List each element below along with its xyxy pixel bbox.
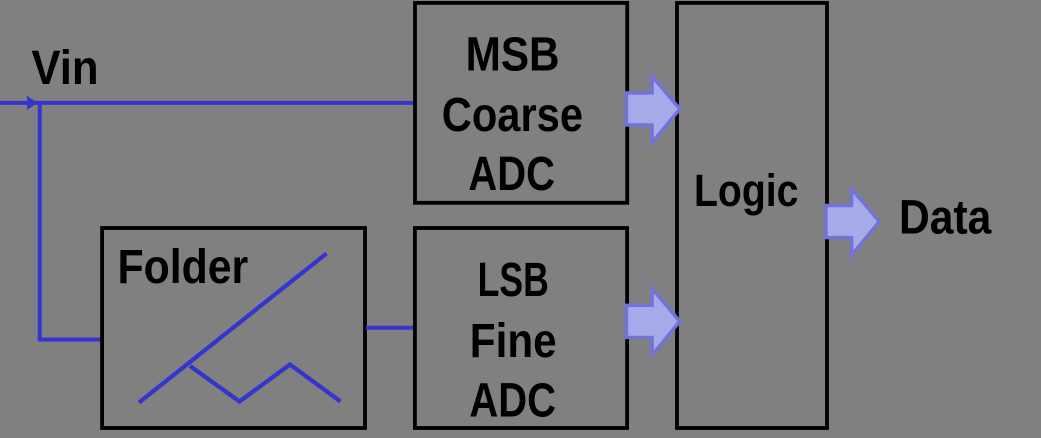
label: Coarse bbox=[442, 89, 583, 142]
fat arrow: Logic to Data output bbox=[826, 189, 879, 255]
label: ADC (fine) bbox=[469, 374, 556, 427]
svg-text:LSB: LSB bbox=[478, 254, 549, 307]
wire arrowhead on Vin line bbox=[27, 96, 38, 110]
svg-text:Data: Data bbox=[899, 191, 992, 244]
label: MSB bbox=[466, 28, 560, 81]
label: ADC (coarse) bbox=[468, 148, 555, 201]
label: Folder bbox=[117, 241, 248, 294]
svg-text:Vin: Vin bbox=[31, 42, 98, 95]
wire: horizontal branch into Folder bbox=[38, 338, 102, 342]
folder transfer curve: input ramp diagonal bbox=[139, 254, 327, 403]
wire: Folder output to LSB Fine ADC bbox=[366, 326, 414, 330]
fat arrow: MSB Coarse ADC to Logic bbox=[627, 76, 680, 142]
block: Logic bbox=[677, 3, 827, 428]
label: Fine bbox=[470, 315, 557, 368]
block: Folder bbox=[102, 228, 365, 428]
svg-text:Fine: Fine bbox=[470, 315, 557, 368]
label: Vin bbox=[31, 42, 98, 95]
fat arrow: LSB Fine ADC to Logic bbox=[627, 289, 680, 355]
block: MSB Coarse ADC bbox=[415, 3, 627, 203]
svg-text:ADC: ADC bbox=[469, 374, 556, 427]
svg-text:ADC: ADC bbox=[468, 148, 555, 201]
block: LSB Fine ADC bbox=[415, 228, 627, 428]
svg-text:MSB: MSB bbox=[466, 28, 560, 81]
wire: vertical branch from Vin node down bbox=[38, 101, 42, 340]
svg-text:Folder: Folder bbox=[117, 241, 248, 294]
svg-text:Logic: Logic bbox=[694, 165, 798, 216]
label: Logic bbox=[694, 165, 798, 216]
wire: Vin input horizontal into MSB ADC bbox=[0, 101, 414, 105]
svg-text:Coarse: Coarse bbox=[442, 89, 583, 142]
folder transfer curve: folded zigzag output bbox=[190, 365, 341, 402]
label: Data bbox=[899, 191, 992, 244]
label: LSB bbox=[478, 254, 549, 307]
